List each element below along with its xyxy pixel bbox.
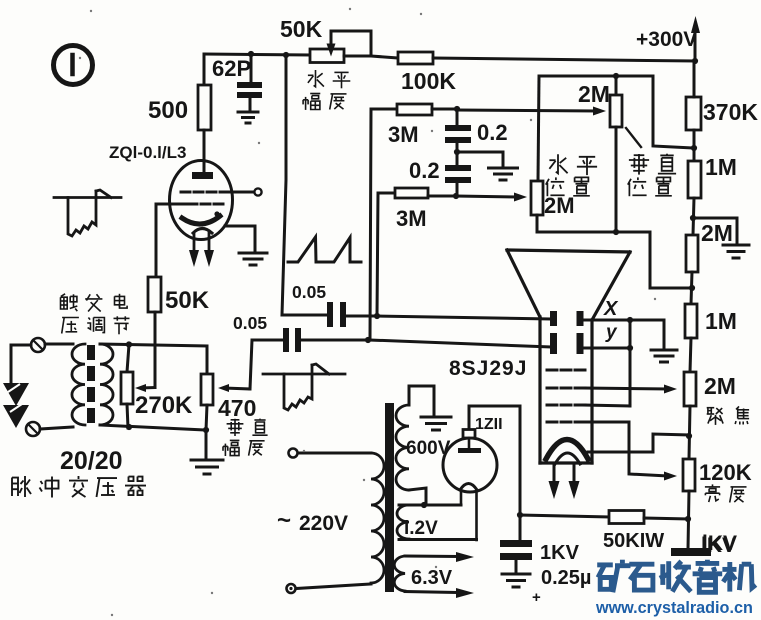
svg-text:X: X [603,298,619,320]
svg-text:0.25µ: 0.25µ [541,567,591,589]
svg-text:50K: 50K [280,16,323,42]
svg-text:220V: 220V [299,512,348,535]
svg-text:50K: 50K [165,287,210,314]
svg-text:8SJ29J: 8SJ29J [449,357,527,380]
svg-text:~: ~ [277,507,291,534]
svg-text:20/20: 20/20 [60,447,123,475]
svg-text:2M: 2M [704,373,736,399]
svg-text:y: y [605,322,618,343]
svg-text:6.3V: 6.3V [411,567,453,589]
svg-text:2M: 2M [578,81,610,107]
svg-text:270K: 270K [135,392,193,419]
svg-text:0.2: 0.2 [477,120,508,145]
svg-text:3M: 3M [396,206,427,231]
svg-text:100K: 100K [401,68,456,94]
svg-text:0.2: 0.2 [409,158,440,183]
svg-text:3M: 3M [388,122,419,147]
svg-text:2M: 2M [701,220,733,246]
svg-text:600V: 600V [406,438,451,459]
svg-text:l.2V: l.2V [404,518,438,539]
svg-text:1KV: 1KV [540,542,580,564]
svg-text:lKV: lKV [702,532,737,555]
svg-text:120K: 120K [699,460,752,485]
svg-text:62P: 62P [212,56,251,81]
svg-text:1ZII: 1ZII [475,416,503,433]
svg-text:470: 470 [218,395,256,421]
svg-text:1M: 1M [705,308,737,334]
svg-text:500: 500 [148,97,188,124]
svg-text:+: + [532,589,541,606]
svg-text:0.05: 0.05 [233,313,267,333]
svg-text:370K: 370K [703,99,758,125]
svg-text:www.crystalradio.cn: www.crystalradio.cn [595,599,753,617]
svg-text:0.05: 0.05 [292,282,326,302]
svg-text:50KIW: 50KIW [603,530,664,552]
svg-text:+300V: +300V [636,28,697,51]
svg-text:1M: 1M [705,154,737,180]
svg-text:ZQl-0.l/L3: ZQl-0.l/L3 [109,143,186,162]
svg-text:2M: 2M [544,193,575,218]
